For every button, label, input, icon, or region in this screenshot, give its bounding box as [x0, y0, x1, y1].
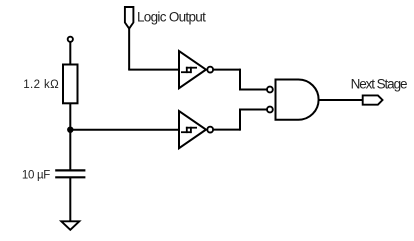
wire junction node to inverter U2 input: [70, 129, 179, 131]
wire capacitor C1 to ground: [69, 177, 71, 221]
inverter U2 hysteresis symbol: [181, 127, 197, 133]
svg-text:1.2 kΩ: 1.2 kΩ: [23, 79, 59, 91]
svg-text:10 µF: 10 µF: [22, 170, 50, 182]
resistor R1 (box): [63, 65, 78, 104]
ground (open triangle): [61, 221, 79, 230]
gate U3 bottom input bubble: [267, 107, 273, 113]
wire Logic Output flag down: [128, 29, 130, 70]
wire gate U3 output to Next Stage flag: [319, 99, 363, 101]
wire to inverter U1 input: [128, 69, 179, 71]
inverter U1 output bubble: [207, 67, 213, 73]
Logic Output port flag: [125, 7, 133, 29]
inverter U1 hysteresis symbol: [181, 67, 197, 73]
svg-text:Next Stage: Next Stage: [351, 76, 407, 91]
wire corner down to gate U3 top input: [240, 69, 267, 90]
wire U1 bubble to corner: [213, 69, 240, 71]
Next Stage port flag: [363, 95, 383, 104]
AND gate U3 body: [276, 80, 319, 120]
wire terminal to resistor R1: [69, 42, 71, 65]
capacitor C1 (two plates): [55, 170, 85, 177]
inverter U2 output bubble: [207, 127, 213, 133]
junction node (dot): [67, 127, 73, 133]
wire corner up to gate U3 bottom input: [240, 110, 267, 131]
schmitt inverter U1 (triangle): [179, 51, 206, 88]
wire resistor R1 to junction node: [69, 103, 71, 130]
wire junction node to capacitor C1: [69, 130, 71, 171]
svg-text:Logic Output: Logic Output: [137, 9, 206, 24]
gate U3 top input bubble: [267, 87, 273, 93]
terminal (open circle) top of resistor: [68, 37, 73, 42]
wire U2 bubble to corner: [213, 129, 240, 131]
schmitt inverter U2 (triangle): [179, 111, 206, 148]
